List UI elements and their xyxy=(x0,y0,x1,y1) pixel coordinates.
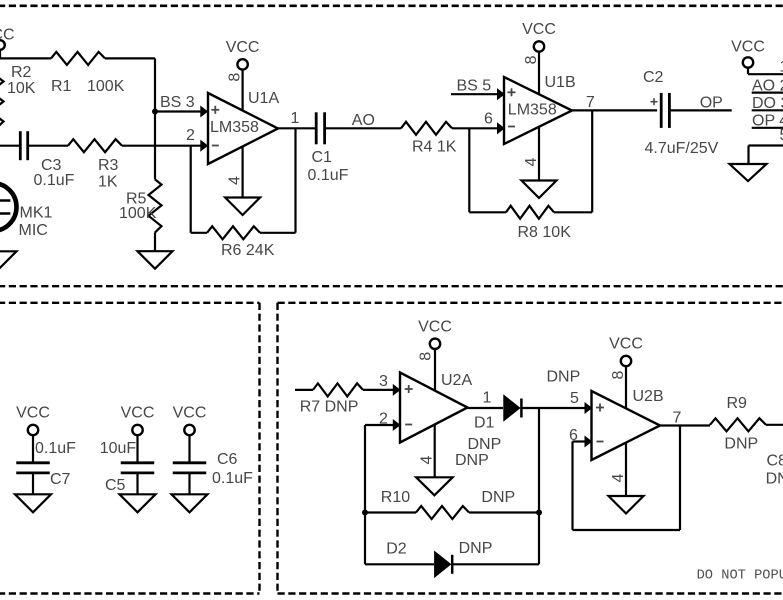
svg-text:U2B: U2B xyxy=(633,388,664,405)
svg-text:R8 10K: R8 10K xyxy=(518,224,572,241)
svg-text:AO 2: AO 2 xyxy=(752,78,783,95)
svg-text:OP 4: OP 4 xyxy=(752,112,783,129)
svg-text:R6 24K: R6 24K xyxy=(221,242,275,259)
svg-text:MIC: MIC xyxy=(19,222,48,239)
svg-text:3: 3 xyxy=(379,373,388,390)
svg-text:C1: C1 xyxy=(312,149,333,166)
svg-text:2: 2 xyxy=(186,127,195,144)
svg-text:DNP: DNP xyxy=(724,436,758,453)
svg-text:LM358: LM358 xyxy=(210,119,259,136)
svg-text:DO 3: DO 3 xyxy=(752,95,783,112)
svg-text:1: 1 xyxy=(483,390,492,407)
svg-text:8: 8 xyxy=(523,55,540,64)
svg-text:7: 7 xyxy=(586,94,595,111)
svg-text:VCC: VCC xyxy=(609,336,643,353)
svg-text:U1B: U1B xyxy=(545,74,576,91)
svg-text:1: 1 xyxy=(780,59,783,76)
svg-text:BS 3: BS 3 xyxy=(160,94,195,111)
svg-text:1: 1 xyxy=(291,110,300,127)
svg-text:OP: OP xyxy=(700,95,723,112)
svg-text:C8: C8 xyxy=(767,453,783,470)
svg-text:C5: C5 xyxy=(105,477,126,494)
svg-text:4: 4 xyxy=(523,157,540,166)
svg-text:DNP: DNP xyxy=(766,471,783,488)
svg-text:C2: C2 xyxy=(643,69,664,86)
svg-text:5: 5 xyxy=(570,390,579,407)
svg-text:8: 8 xyxy=(226,73,243,82)
svg-text:DNP: DNP xyxy=(481,489,515,506)
svg-text:8: 8 xyxy=(418,352,435,361)
svg-text:VCC: VCC xyxy=(731,39,765,56)
svg-text:DNP: DNP xyxy=(547,369,581,386)
svg-text:VCC: VCC xyxy=(173,405,207,422)
svg-text:4: 4 xyxy=(419,455,436,464)
svg-text:1K: 1K xyxy=(98,174,118,191)
svg-text:VCC: VCC xyxy=(522,21,556,38)
svg-text:6: 6 xyxy=(569,427,578,444)
svg-text:BS 5: BS 5 xyxy=(457,78,492,95)
svg-text:0.1uF: 0.1uF xyxy=(35,440,76,457)
svg-text:R9: R9 xyxy=(727,395,748,412)
svg-text:VCC: VCC xyxy=(0,27,15,44)
svg-text:VCC: VCC xyxy=(226,39,260,56)
svg-text:5: 5 xyxy=(780,127,783,144)
svg-text:7: 7 xyxy=(673,410,682,427)
svg-text:0.1uF: 0.1uF xyxy=(34,172,75,189)
svg-text:U2A: U2A xyxy=(441,372,472,389)
svg-text:100K: 100K xyxy=(119,205,157,222)
svg-text:DNP: DNP xyxy=(468,436,502,453)
svg-text:DNP: DNP xyxy=(455,452,489,469)
svg-text:VCC: VCC xyxy=(121,405,155,422)
svg-text:10uF: 10uF xyxy=(100,440,137,457)
svg-text:R3: R3 xyxy=(98,157,119,174)
svg-text:VCC: VCC xyxy=(418,318,452,335)
svg-text:0.1uF: 0.1uF xyxy=(308,167,349,184)
svg-text:R7 DNP: R7 DNP xyxy=(300,399,359,416)
svg-text:R2: R2 xyxy=(11,64,32,81)
svg-text:MK1: MK1 xyxy=(20,205,53,222)
svg-text:D1: D1 xyxy=(474,415,495,432)
svg-text:100K: 100K xyxy=(87,78,125,95)
svg-text:10K: 10K xyxy=(7,80,36,97)
svg-text:LM358: LM358 xyxy=(508,102,557,119)
svg-text:D2: D2 xyxy=(386,541,407,558)
svg-text:U1A: U1A xyxy=(248,90,279,107)
svg-text:DO NOT POPU: DO NOT POPU xyxy=(697,569,783,584)
svg-text:AO: AO xyxy=(352,112,375,129)
svg-text:4.7uF/25V: 4.7uF/25V xyxy=(645,140,719,157)
svg-text:R1: R1 xyxy=(51,78,72,95)
svg-text:R4 1K: R4 1K xyxy=(412,139,457,156)
svg-text:VCC: VCC xyxy=(16,405,50,422)
svg-text:4: 4 xyxy=(610,473,627,482)
svg-text:4: 4 xyxy=(226,176,243,185)
svg-text:R10: R10 xyxy=(381,489,410,506)
svg-text:8: 8 xyxy=(610,370,627,379)
svg-text:0.1uF: 0.1uF xyxy=(212,470,253,487)
svg-text:2: 2 xyxy=(379,411,388,428)
svg-text:6: 6 xyxy=(484,111,493,128)
svg-text:DNP: DNP xyxy=(459,540,493,557)
svg-text:C7: C7 xyxy=(50,471,71,488)
svg-text:C6: C6 xyxy=(217,451,238,468)
